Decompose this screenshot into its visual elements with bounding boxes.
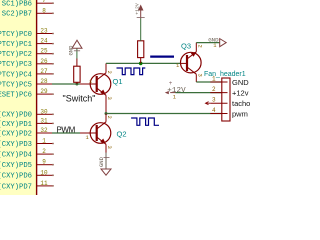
U1 pin 9 (PD5) <box>0 159 53 170</box>
svg-text:PTCY)PC4: PTCY)PC4 <box>0 71 32 79</box>
microcontroller U1 body <box>0 0 37 201</box>
svg-text:(CXY)PD4: (CXY)PD4 <box>0 152 32 160</box>
U1 pin 2 (PD4) <box>0 148 53 159</box>
svg-text:PTCY)PC5: PTCY)PC5 <box>0 81 32 89</box>
wire Q1 collector rail <box>106 62 181 64</box>
J1 pin 2 +12v <box>210 86 248 98</box>
U1 pin 25 (PC2) <box>0 48 53 59</box>
svg-text:SC1)PB6: SC1)PB6 <box>2 1 32 9</box>
svg-text:32: 32 <box>40 127 48 134</box>
resistor R1 <box>74 59 80 85</box>
wire junction to J1 pin4 <box>106 113 222 115</box>
svg-text:10: 10 <box>40 169 48 176</box>
U1 pin 32 (PD2) <box>0 127 54 138</box>
svg-text:24: 24 <box>40 38 48 45</box>
junction node <box>139 62 143 66</box>
svg-text:26: 26 <box>40 58 48 65</box>
wire Q3 collector to J1 pin1 <box>196 81 222 83</box>
svg-text:3: 3 <box>196 74 203 77</box>
svg-text:(CXY)PD2: (CXY)PD2 <box>0 130 32 138</box>
svg-text:(CXY)PD1: (CXY)PD1 <box>0 121 32 129</box>
svg-text:GND: GND <box>232 78 249 87</box>
svg-text:2: 2 <box>42 148 46 155</box>
U1 pin 30 (PD0) <box>0 108 53 119</box>
svg-text:tacho: tacho <box>232 99 250 108</box>
U1 pin 26 (PC3) <box>0 58 53 69</box>
svg-text:PTCY)PC3: PTCY)PC3 <box>0 61 32 69</box>
svg-text:+12v: +12v <box>232 89 249 98</box>
connector J1 Fan_header1 <box>204 71 246 121</box>
U1 pin 24 (PC1) <box>0 38 53 49</box>
svg-text:29: 29 <box>40 88 48 95</box>
U1 pin 27 (PC4) <box>0 68 53 79</box>
svg-text:2: 2 <box>196 45 203 48</box>
resistor R2 <box>138 19 144 64</box>
U1 pin 10 (PD6) <box>0 169 53 180</box>
svg-text:9: 9 <box>42 159 46 166</box>
svg-text:PTCY)PC2: PTCY)PC2 <box>0 51 32 59</box>
transistor Q3 (PNP) <box>176 43 203 82</box>
svg-text:2: 2 <box>212 86 216 93</box>
U1 pin 1 (PD3) <box>0 138 53 149</box>
power +12V left-pointing <box>165 80 186 100</box>
svg-text:1: 1 <box>86 134 90 141</box>
svg-text:28: 28 <box>40 78 48 85</box>
svg-text:23: 23 <box>40 28 48 35</box>
J1 pin 3 tacho <box>205 97 250 109</box>
U1 pin 28 (PC5) <box>0 78 54 89</box>
svg-text:1: 1 <box>42 138 46 145</box>
wire PC5 to Q1 base <box>52 83 80 85</box>
svg-text:pwm: pwm <box>232 110 248 119</box>
svg-text:GND: GND <box>68 45 75 56</box>
svg-text:(CXY)PD5: (CXY)PD5 <box>0 162 32 170</box>
svg-text:"Switch": "Switch" <box>63 94 96 104</box>
square wave note 1 <box>117 68 146 75</box>
transistor Q1 <box>80 63 113 113</box>
U1 pin 29 (PC6) <box>0 88 53 99</box>
svg-text:3: 3 <box>106 97 113 100</box>
svg-text:+: + <box>169 80 173 87</box>
svg-text:11: 11 <box>40 180 48 187</box>
svg-text:7: 7 <box>42 0 46 4</box>
svg-text:SC2)PB7: SC2)PB7 <box>2 11 32 19</box>
svg-text:30: 30 <box>40 108 48 115</box>
ground GND right <box>208 37 226 49</box>
svg-text:PTCY)PC0: PTCY)PC0 <box>0 31 32 39</box>
svg-text:Q3: Q3 <box>181 42 191 51</box>
J1 pin 1 GND <box>210 76 249 88</box>
svg-text:Q1: Q1 <box>113 77 123 86</box>
unconnected pin end markers <box>52 2 54 187</box>
svg-text:4: 4 <box>212 107 216 114</box>
wire PD2 to Q2 base <box>52 132 80 134</box>
wire +12V to J1 pin2 <box>176 92 222 94</box>
ground GND above R1 <box>68 40 83 58</box>
svg-text:31: 31 <box>40 117 48 124</box>
svg-text:3: 3 <box>106 146 113 149</box>
svg-text:GND: GND <box>98 156 105 167</box>
J1 pin 4 pwm <box>210 107 248 119</box>
U1 pin 23 (PC0) <box>0 28 53 39</box>
U1 pin 7 (PB6) <box>2 0 53 9</box>
square wave note 3 <box>131 118 159 125</box>
svg-text:2: 2 <box>106 116 113 119</box>
svg-text:(CXY)PD6: (CXY)PD6 <box>0 173 32 181</box>
node Q1 emitter / Q2 collector junction <box>105 112 108 115</box>
svg-text:+12V: +12V <box>134 3 140 15</box>
node R1 bottom junction <box>75 83 78 86</box>
U1 pin 8 (PB7) <box>2 7 53 18</box>
power +12V above R2 <box>134 3 144 18</box>
svg-text:(CXY)PD7: (CXY)PD7 <box>0 183 32 191</box>
svg-text:25: 25 <box>40 48 48 55</box>
note thick level line <box>150 55 174 57</box>
svg-text:Q2: Q2 <box>117 130 127 139</box>
svg-text:2: 2 <box>106 71 113 74</box>
svg-text:ESET)PC6: ESET)PC6 <box>0 92 32 100</box>
transistor Q2 <box>80 114 113 153</box>
svg-text:PTCY)PC1: PTCY)PC1 <box>0 41 32 49</box>
svg-text:(CXY)PD3: (CXY)PD3 <box>0 141 32 149</box>
ground GND below Q2 <box>98 153 111 176</box>
U1 pin 11 (PD7) <box>0 180 53 191</box>
svg-text:27: 27 <box>40 68 48 75</box>
svg-text:8: 8 <box>42 7 46 14</box>
svg-text:3: 3 <box>212 97 216 104</box>
wire Q3 emitter to GND <box>196 42 219 44</box>
svg-text:(CXY)PD0: (CXY)PD0 <box>0 112 32 120</box>
svg-text:+12V: +12V <box>167 87 186 95</box>
svg-text:Fan_header1: Fan_header1 <box>204 71 246 78</box>
U1 pin 31 (PD1) <box>0 117 53 128</box>
svg-text:1: 1 <box>212 76 216 83</box>
